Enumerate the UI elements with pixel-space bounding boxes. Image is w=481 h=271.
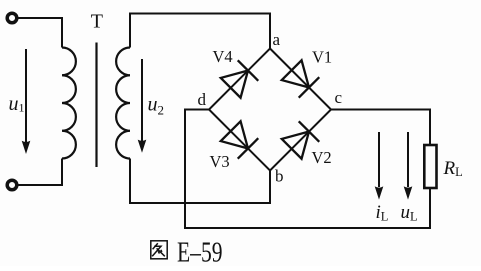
- voltage arrow uL: [404, 132, 413, 200]
- terminal top-left: [7, 13, 17, 23]
- diode V3: [220, 121, 258, 159]
- transformer core: [95, 43, 97, 168]
- svg-text:RL: RL: [443, 158, 463, 179]
- svg-text:b: b: [275, 167, 284, 186]
- bridge diamond wires a-c-b-d: [209, 49, 331, 171]
- svg-text:a: a: [273, 30, 281, 49]
- svg-text:V2: V2: [312, 148, 332, 167]
- diode V1: [281, 60, 319, 98]
- wire node c to load top: [331, 110, 430, 146]
- svg-text:u2: u2: [148, 94, 165, 118]
- caption glyph 图 (drawn): [151, 241, 167, 259]
- svg-text:V3: V3: [210, 152, 230, 171]
- voltage arrow u1: [22, 49, 31, 154]
- wire secondary top to node a: [130, 14, 270, 49]
- svg-text:d: d: [198, 90, 207, 109]
- svg-text:u1: u1: [9, 93, 25, 115]
- voltage arrow u2: [138, 59, 147, 153]
- diode V2: [281, 121, 319, 159]
- svg-text:iL: iL: [376, 202, 389, 224]
- secondary winding of transformer T: [116, 48, 130, 159]
- svg-text:V4: V4: [213, 47, 233, 66]
- resistor RL: [424, 145, 436, 188]
- primary winding of transformer T: [62, 48, 76, 159]
- svg-text:V1: V1: [312, 48, 332, 67]
- current arrow iL: [375, 132, 384, 200]
- svg-text:c: c: [335, 88, 343, 107]
- svg-text:T: T: [91, 11, 103, 33]
- wire primary bottom to terminal: [17, 159, 62, 186]
- terminal bottom-left: [7, 180, 17, 190]
- wire node d to load bottom: [185, 110, 430, 229]
- wire secondary bottom to node b: [130, 159, 270, 204]
- svg-text:E–59: E–59: [177, 237, 223, 266]
- diode V4: [220, 60, 258, 98]
- wire top-left to primary top: [17, 18, 62, 48]
- svg-text:uL: uL: [401, 202, 418, 224]
